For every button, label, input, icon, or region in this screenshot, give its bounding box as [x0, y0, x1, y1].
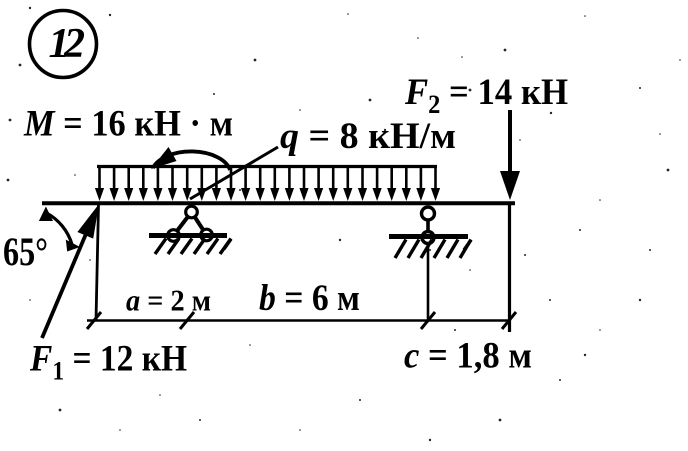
support A hatch stroke 4	[194, 239, 205, 255]
support A hatch stroke 7 (short)	[224, 239, 231, 249]
load arrow 13	[273, 168, 276, 191]
load arrow 15	[303, 168, 306, 191]
load arrow 3	[127, 168, 130, 191]
support A right leg	[192, 212, 207, 235]
svg-text:a = 2 м: a = 2 м	[126, 283, 211, 318]
load arrow 19	[361, 168, 364, 191]
load arrow 2	[113, 168, 116, 191]
distributed load top line	[97, 165, 437, 168]
support A hatch stroke 5	[207, 239, 218, 255]
support B top pin circle	[422, 207, 435, 220]
load arrow 9	[215, 168, 218, 191]
load arrow 21	[390, 168, 393, 191]
svg-text:F2 = 14 кН: F2 = 14 кН	[404, 72, 568, 119]
svg-text:q = 8 кН/м: q = 8 кН/м	[280, 116, 456, 157]
load arrow 22	[405, 168, 408, 191]
load arrow 10	[230, 168, 233, 191]
problem number circle 12	[30, 11, 97, 78]
support A ground line	[149, 233, 227, 238]
support A hatch stroke 1	[155, 239, 166, 255]
support B hatch stroke 3	[421, 240, 432, 259]
support B dimension leader vertical	[427, 243, 430, 321]
svg-text:65°: 65°	[3, 229, 48, 274]
support B hatch stroke 2	[408, 240, 419, 259]
load arrow 18	[346, 168, 349, 191]
svg-text:F1 = 12 кН: F1 = 12 кН	[29, 339, 187, 386]
beam	[42, 201, 515, 205]
load arrow 16	[317, 168, 320, 191]
support B hatch stroke 1	[395, 240, 406, 259]
load arrow 1	[98, 168, 101, 191]
load arrow 17	[332, 168, 335, 191]
load arrow 11	[244, 168, 247, 191]
dimension tick at support B	[421, 312, 435, 329]
force F1 arrowhead	[77, 204, 99, 239]
load arrow 7	[186, 168, 189, 191]
angle arc 65	[39, 207, 80, 252]
q leader line	[190, 147, 278, 199]
load arrow 14	[288, 168, 291, 191]
dimension tick at left end	[87, 312, 101, 329]
dimension line	[87, 319, 511, 322]
load arrow 5	[157, 168, 160, 191]
support B hatch stroke 5	[447, 240, 458, 259]
force F1 arrow	[42, 204, 99, 338]
dimension vertical at F1 point	[96, 205, 99, 320]
support B link	[426, 219, 430, 232]
support A hatch stroke 3	[181, 239, 192, 255]
svg-text:b = 6 м: b = 6 м	[259, 278, 360, 319]
support A left leg	[174, 212, 192, 236]
load arrow 6	[171, 168, 174, 191]
dimension tick at right end	[502, 312, 516, 329]
support B hatch stroke 4	[434, 240, 445, 259]
support A hatch stroke 6	[220, 239, 231, 255]
support B hatch stroke 7 (short)	[464, 240, 471, 250]
moment arc arrowhead	[151, 147, 177, 169]
load arrow 12	[259, 168, 262, 191]
dimension tick at support A	[180, 312, 194, 329]
load arrow 23	[420, 168, 423, 191]
load arrow 20	[376, 168, 379, 191]
support B roller	[389, 207, 471, 321]
support A right base circle	[201, 229, 213, 241]
support A hatch stroke 2	[168, 239, 179, 255]
svg-text:c = 1,8 м: c = 1,8 м	[404, 336, 532, 377]
load arrow 4	[142, 168, 145, 191]
support B base circle	[422, 232, 434, 244]
support B ground line	[389, 234, 468, 239]
support B hatch stroke 6	[460, 240, 471, 259]
support A left base circle	[168, 230, 180, 242]
svg-text:M = 16 кН · м: M = 16 кН · м	[23, 104, 233, 145]
force F2 arrow	[500, 110, 520, 200]
dimension vertical at right end	[508, 205, 511, 332]
distributed load q	[95, 167, 440, 202]
svg-text:12: 12	[49, 21, 86, 67]
support A top pin circle	[186, 206, 198, 218]
load arrow 24	[434, 168, 437, 191]
moment arc M	[151, 147, 230, 170]
angle arc lower arrowhead	[66, 240, 80, 252]
support A pin	[149, 206, 231, 254]
angle arc upper arrowhead	[39, 207, 53, 222]
load arrow 8	[201, 168, 204, 191]
force F2 arrowhead	[500, 171, 520, 200]
